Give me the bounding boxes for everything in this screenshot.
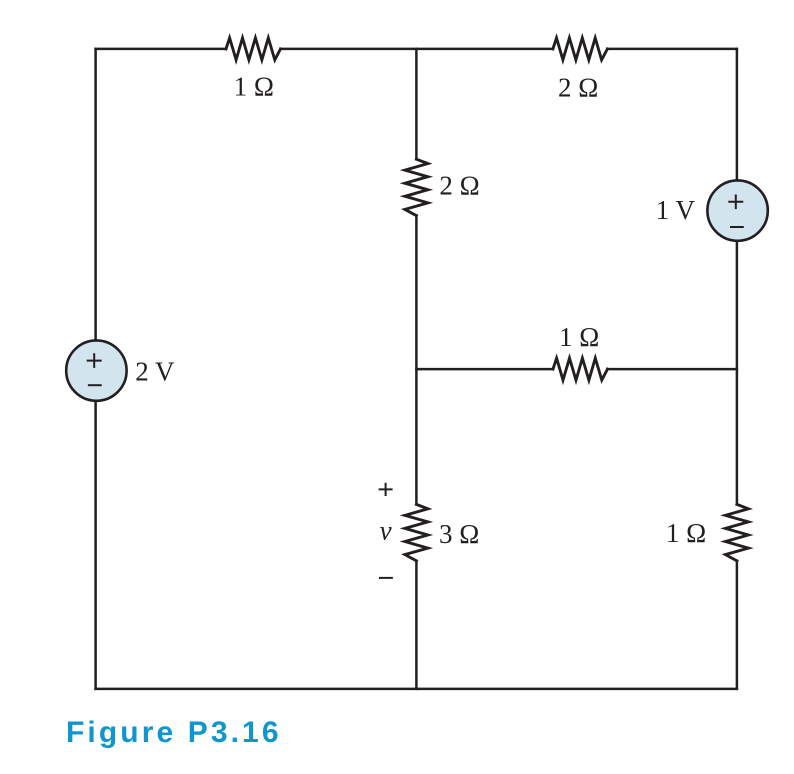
resistor R 1ohm right zigzag	[725, 504, 748, 560]
label minus of v	[379, 577, 393, 579]
svg-text:2 Ω: 2 Ω	[439, 170, 479, 200]
svg-text:1 V: 1 V	[656, 195, 696, 225]
svg-text:Figure P3.16: Figure P3.16	[66, 716, 282, 749]
svg-text:1 Ω: 1 Ω	[666, 518, 706, 548]
wire top-right segment	[607, 48, 737, 51]
voltage source V1 minus sign	[88, 384, 102, 386]
voltage source V2 minus sign	[730, 226, 744, 228]
wire bottom segment	[96, 688, 737, 691]
svg-text:1 Ω: 1 Ω	[234, 72, 274, 102]
wire middle horizontal right segment	[608, 368, 737, 371]
voltage source V1 plus sign	[87, 353, 102, 368]
svg-text:1 Ω: 1 Ω	[559, 322, 599, 352]
resistor R 2ohm middle vertical zigzag	[405, 159, 428, 215]
wire top-middle segment	[281, 48, 553, 51]
voltage source V2 1V circle	[707, 180, 767, 240]
svg-text:3 Ω: 3 Ω	[439, 519, 479, 549]
voltage source V2 plus sign	[728, 195, 743, 210]
wire left lower segment	[94, 401, 97, 689]
wire right middle segment	[736, 241, 739, 505]
wire middle horizontal left segment	[416, 368, 553, 371]
label plus of v	[379, 483, 393, 496]
resistor R 1ohm middle horizontal zigzag	[553, 358, 608, 380]
wire top-left segment	[96, 48, 226, 51]
svg-text:v: v	[380, 515, 392, 545]
resistor R 2ohm top-right zigzag	[553, 38, 608, 60]
resistor R 1ohm top-left zigzag	[226, 38, 281, 60]
wire middle vertical upper segment	[415, 49, 418, 159]
voltage source V1 2V circle	[66, 340, 126, 400]
wire right upper segment	[736, 49, 739, 180]
svg-text:2 Ω: 2 Ω	[558, 73, 598, 103]
wire right lower segment	[736, 561, 739, 689]
svg-text:2 V: 2 V	[135, 357, 175, 387]
wire middle vertical mid segment	[415, 216, 418, 505]
resistor R 3ohm zigzag	[405, 504, 428, 560]
wire left upper segment	[94, 49, 97, 341]
wire middle vertical lower segment	[415, 561, 418, 689]
